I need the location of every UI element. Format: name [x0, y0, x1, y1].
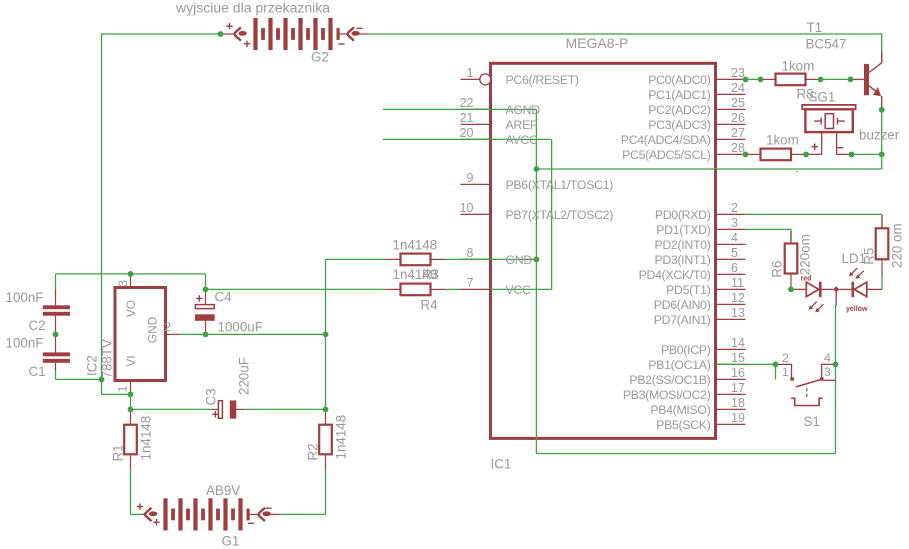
- junction C3 left: [128, 407, 134, 413]
- svg-text:14: 14: [731, 336, 745, 350]
- svg-text:21: 21: [460, 111, 474, 125]
- svg-text:3: 3: [824, 365, 831, 379]
- svg-text:19: 19: [731, 411, 745, 425]
- svg-text:1n4148: 1n4148: [334, 415, 349, 460]
- capacitor C1: [55, 334, 57, 352]
- svg-text:1kom: 1kom: [782, 58, 815, 73]
- svg-text:PC1(ADC1): PC1(ADC1): [648, 88, 710, 102]
- junction IC2 VO: [128, 271, 134, 277]
- wire: pin15 to S1: [716, 363, 776, 365]
- IC2 voltage regulator box: [115, 288, 166, 381]
- resistor R6 220om (vertical): [790, 231, 792, 245]
- svg-text:PC3(ADC3): PC3(ADC3): [648, 118, 710, 132]
- LED junction (maroon diamond): [833, 286, 839, 292]
- svg-text:PC4(ADC4/SDA): PC4(ADC4/SDA): [621, 133, 711, 147]
- LD2 emission arrows: [852, 268, 864, 276]
- wire: G1 right to R2: [281, 513, 326, 515]
- capacitor C3: [212, 408, 219, 410]
- svg-text:MEGA8-P: MEGA8-P: [566, 35, 629, 51]
- svg-text:BC547: BC547: [806, 37, 847, 52]
- svg-text:GND: GND: [506, 253, 533, 267]
- transistor T1 BC547: [864, 64, 869, 95]
- junction GND rail: [323, 332, 329, 338]
- IC U1: microcontroller IC1 MEGA8-P box: [491, 63, 716, 438]
- svg-text:1n4148: 1n4148: [139, 416, 154, 461]
- svg-text:1: 1: [782, 365, 789, 379]
- svg-text:PC6(/RESET): PC6(/RESET): [506, 73, 579, 87]
- svg-text:8: 8: [467, 246, 474, 260]
- svg-text:100nF: 100nF: [6, 335, 44, 350]
- svg-text:PD4(XCK/T0): PD4(XCK/T0): [639, 268, 711, 282]
- svg-text:IC2: IC2: [85, 355, 100, 376]
- svg-text:6: 6: [731, 261, 738, 275]
- svg-text:PC2(ADC2): PC2(ADC2): [648, 103, 710, 117]
- junction T1 base: [848, 77, 854, 83]
- svg-text:1n4148: 1n4148: [393, 238, 438, 253]
- svg-text:R5: R5: [862, 248, 877, 265]
- wire: pin28 buzzer net: [852, 153, 882, 155]
- svg-text:1kom: 1kom: [766, 132, 799, 147]
- svg-text:4: 4: [824, 351, 831, 365]
- svg-text:C3: C3: [204, 388, 219, 405]
- resistor R2 (1n4148, vertical): [325, 409, 327, 425]
- svg-text:PD2(INT0): PD2(INT0): [654, 238, 710, 252]
- junction C1/C2: [53, 332, 59, 338]
- svg-text:12: 12: [731, 291, 745, 305]
- svg-text:S1: S1: [804, 414, 820, 429]
- svg-text:PD1(TXD): PD1(TXD): [656, 223, 711, 237]
- svg-text:26: 26: [731, 111, 745, 125]
- junction S1 pin2: [773, 362, 779, 368]
- svg-text:PB2(SS/OC1B): PB2(SS/OC1B): [629, 373, 710, 387]
- junction C4 bottom: [203, 332, 209, 338]
- G1 left terminal: [142, 513, 145, 515]
- svg-text:20: 20: [460, 126, 474, 140]
- resistor R7 1kom: [746, 153, 761, 155]
- wire: R5 bottom lead green part: [881, 273, 883, 289]
- svg-text:100nF: 100nF: [6, 290, 44, 305]
- junction buzzer+: [803, 152, 809, 158]
- svg-text:220om: 220om: [798, 234, 813, 275]
- svg-text:24: 24: [731, 81, 745, 95]
- svg-text:VI: VI: [124, 355, 138, 366]
- resistor R3 (1n4148): [386, 258, 401, 260]
- LED LD1 (red): [791, 288, 806, 290]
- junction C1 rail: [99, 377, 105, 383]
- svg-text:1000uF: 1000uF: [218, 320, 263, 335]
- pin 1 stub + inversion bubble: [461, 78, 480, 80]
- wire: pin3 to R6: [746, 228, 792, 230]
- svg-text:C4: C4: [215, 290, 233, 305]
- wire: AGND net: [383, 108, 536, 110]
- junction IC2 VI: [128, 392, 134, 398]
- svg-text:7: 7: [467, 276, 474, 290]
- svg-text:23: 23: [731, 66, 745, 80]
- svg-text:15: 15: [731, 351, 745, 365]
- svg-text:G2: G2: [311, 50, 329, 65]
- wire: middle vertical rail x325.5: [325, 259, 327, 409]
- junction emitter net corner: [879, 152, 885, 158]
- junction R8 out: [818, 77, 824, 83]
- svg-text:PD0(RXD): PD0(RXD): [655, 208, 711, 222]
- junction buzzer-: [849, 152, 855, 158]
- svg-text:IC1: IC1: [491, 457, 512, 472]
- junction C4 top: [203, 287, 209, 293]
- resistor R5 220 om (vertical): [881, 215, 883, 229]
- svg-text:220 om: 220 om: [890, 223, 905, 268]
- IC2 pin 2 (GND): [166, 333, 179, 335]
- wire: pin23 to R8 net: [746, 78, 761, 80]
- svg-text:AREF: AREF: [506, 118, 538, 132]
- battery G1: [163, 498, 167, 530]
- svg-text:red: red: [801, 275, 812, 282]
- svg-text:R6: R6: [770, 261, 785, 278]
- svg-text:PB1(OC1A): PB1(OC1A): [648, 358, 710, 372]
- wire: R4 / VCC row: [206, 288, 386, 290]
- resistor R1 (1n4148, vertical): [130, 409, 132, 425]
- G2 right terminal: [339, 33, 347, 35]
- svg-text:T1: T1: [807, 20, 823, 35]
- svg-text:wyjsciue dla przekaznika: wyjsciue dla przekaznika: [175, 0, 330, 16]
- svg-text:VCC: VCC: [506, 283, 531, 297]
- wire: C3 row left: [131, 408, 212, 410]
- svg-text:788TV: 788TV: [100, 339, 115, 379]
- junction AGND net: [534, 166, 540, 172]
- svg-text:PC0(ADC0): PC0(ADC0): [648, 73, 710, 87]
- wire: C1 bottom to junction: [55, 368, 57, 379]
- wire: emitter down: [881, 96, 883, 154]
- svg-text:2: 2: [731, 201, 738, 215]
- svg-text:C1: C1: [29, 364, 46, 379]
- svg-text:SG1: SG1: [809, 90, 836, 105]
- svg-text:PD5(T1): PD5(T1): [666, 283, 711, 297]
- svg-text:10: 10: [460, 201, 474, 215]
- junction GND net: [534, 257, 540, 263]
- svg-text:AB9V: AB9V: [206, 483, 240, 498]
- wire: bottom rail: [536, 453, 835, 455]
- svg-text:PB0(ICP): PB0(ICP): [661, 343, 711, 357]
- junction C3 right: [323, 407, 329, 413]
- svg-text:220uF: 220uF: [237, 357, 252, 395]
- svg-text:buzzer: buzzer: [859, 127, 900, 142]
- svg-text:25: 25: [731, 96, 745, 110]
- svg-text:PB4(MISO): PB4(MISO): [650, 403, 710, 417]
- junction emitter pin: [879, 107, 885, 113]
- G2 left terminal: [221, 33, 235, 35]
- svg-text:4: 4: [731, 231, 738, 245]
- svg-text:PC5(ADC5/SCL): PC5(ADC5/SCL): [622, 148, 711, 162]
- svg-text:11: 11: [731, 276, 744, 290]
- svg-text:17: 17: [731, 381, 745, 395]
- svg-text:18: 18: [731, 396, 745, 410]
- svg-text:3: 3: [116, 280, 130, 287]
- wire: VO rail y273.9: [56, 273, 206, 275]
- svg-text:PD7(AIN1): PD7(AIN1): [654, 313, 711, 327]
- svg-text:1: 1: [467, 66, 474, 80]
- LED LD2 (yellow): [851, 282, 854, 297]
- buzzer - pin: [837, 132, 852, 154]
- svg-text:5: 5: [731, 246, 738, 260]
- IC1 pin stubs right: [716, 78, 746, 80]
- svg-text:13: 13: [731, 306, 745, 320]
- junction G2+: [218, 31, 224, 37]
- wire: buzzer- / emitter net y169: [536, 168, 881, 170]
- svg-text:22: 22: [460, 96, 474, 110]
- switch S1: [775, 364, 777, 379]
- svg-text:PD6(AIN0): PD6(AIN0): [654, 298, 711, 312]
- G1 right terminal: [249, 513, 258, 515]
- wire: R3 row: [326, 258, 386, 260]
- svg-text:9: 9: [467, 171, 474, 185]
- battery G2: [253, 18, 257, 50]
- IC2 pin 1 (VI): [130, 381, 132, 395]
- capacitor C4: [205, 289, 207, 304]
- stray origin mark: [797, 171, 799, 173]
- resistor R4 (1n4148): [386, 288, 401, 290]
- svg-text:R4: R4: [421, 298, 439, 313]
- svg-text:2: 2: [782, 351, 789, 365]
- svg-text:yellow: yellow: [846, 306, 868, 313]
- wire: left vertical rail: [101, 33, 103, 379]
- svg-text:PB6(XTAL1/TOSC1): PB6(XTAL1/TOSC1): [506, 178, 614, 192]
- svg-text:PD3(INT1): PD3(INT1): [654, 253, 710, 267]
- wire: G2 right to T1 collector corner: [368, 33, 882, 35]
- buzzer + pin: [807, 132, 822, 154]
- wire: C3 row right: [244, 408, 326, 410]
- svg-text:1: 1: [115, 385, 129, 392]
- svg-text:R3: R3: [422, 267, 439, 282]
- svg-text:PB5(SCK): PB5(SCK): [656, 418, 711, 432]
- svg-text:R1: R1: [111, 444, 126, 461]
- wire: R1 bottom to G1: [130, 469, 132, 514]
- wire: AVCC net: [383, 138, 552, 140]
- svg-text:2: 2: [164, 320, 171, 334]
- svg-text:27: 27: [731, 126, 745, 140]
- svg-text:AVCC: AVCC: [506, 133, 538, 147]
- junction pin28: [743, 152, 749, 158]
- svg-text:GND: GND: [145, 316, 159, 343]
- svg-text:PB3(MOSI/OC2): PB3(MOSI/OC2): [623, 388, 711, 402]
- svg-text:C2: C2: [29, 318, 46, 333]
- svg-text:3: 3: [731, 216, 738, 230]
- svg-text:28: 28: [731, 141, 745, 155]
- junction S1 pin4: [833, 362, 839, 368]
- svg-text:16: 16: [731, 366, 745, 380]
- wire: GND row from IC2 pin2: [179, 333, 326, 335]
- svg-text:PB7(XTAL2/TOSC2): PB7(XTAL2/TOSC2): [506, 208, 614, 222]
- capacitor C2: [55, 290, 57, 305]
- svg-text:G1: G1: [222, 533, 240, 548]
- LD1 emission arrows: [811, 302, 823, 310]
- junction pin23 a: [743, 77, 749, 83]
- resistor R8 1kom: [761, 78, 776, 80]
- IC1 pin stubs left: [461, 108, 491, 110]
- buzzer SG1: [802, 105, 855, 109]
- wire: G2 left to corner: [102, 33, 221, 35]
- svg-text:VO: VO: [124, 300, 138, 317]
- svg-text:AGND: AGND: [506, 103, 541, 117]
- wire: pin2 to R5: [746, 213, 883, 215]
- IC2 pin 3 (VO): [130, 274, 132, 288]
- svg-text:R2: R2: [306, 443, 321, 460]
- junction pin23 b: [758, 77, 764, 83]
- wire: down to IC2 pin1 junction: [101, 379, 103, 394]
- junction R6/LD1: [788, 287, 794, 293]
